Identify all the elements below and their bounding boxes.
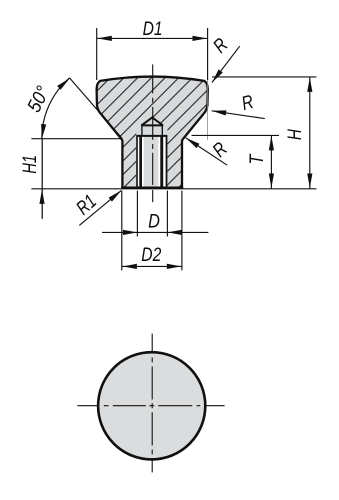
dim H arrow top — [307, 77, 312, 92]
svg-text:50°: 50° — [23, 83, 54, 116]
thread minor dia right line — [160, 136, 163, 186]
drill point cone — [141, 118, 163, 126]
leader R mid line — [212, 111, 265, 119]
dim T arrow bottom — [269, 174, 274, 189]
dim H ext line top — [212, 76, 316, 78]
leader R mid arrow — [211, 108, 226, 115]
svg-text:H1: H1 — [19, 155, 41, 174]
dim T ext line top — [192, 134, 280, 136]
knob section outline — [97, 77, 208, 188]
dim H line — [309, 77, 311, 189]
dim D2 ext line right — [181, 191, 183, 271]
bottom view circle — [98, 352, 205, 459]
thread white gap left outer — [138, 136, 140, 186]
dim D1 arrow left — [97, 36, 112, 41]
thread white gap right outer — [163, 136, 165, 186]
leader R low line — [186, 138, 227, 165]
knob section body fill — [97, 77, 208, 188]
dim T line — [270, 135, 272, 188]
dim D2 line — [122, 265, 182, 267]
svg-text:R: R — [209, 34, 232, 57]
thread major dia right line — [166, 135, 168, 187]
bottom face line — [121, 187, 183, 189]
bottom face ext line — [31, 188, 316, 190]
leader R top arrow — [210, 69, 223, 84]
svg-text:R: R — [239, 91, 256, 115]
svg-text:R1: R1 — [72, 190, 101, 219]
dim D1 ext line right — [207, 28, 209, 80]
thread hole cover: drill cone interior — [142, 117, 163, 126]
svg-text:D: D — [148, 210, 160, 232]
leader R top line — [212, 46, 240, 82]
bottom view centerline horizontal — [77, 405, 224, 407]
thread white gap right inner — [158, 136, 160, 186]
dim D2 ext line left — [121, 191, 123, 271]
leader R1 line — [79, 190, 121, 225]
leader R low arrow — [184, 136, 199, 148]
drill bore right line — [161, 125, 163, 137]
dim D arrow right — [167, 230, 182, 235]
dim D ext line right — [166, 191, 168, 237]
dim D ext line left — [136, 191, 138, 237]
svg-text:H: H — [284, 128, 306, 140]
angle 50 deg slanted line — [70, 78, 123, 139]
drill bore left line — [141, 125, 143, 137]
angle 50 arc arrow top — [57, 76, 71, 89]
dim D1 ext line right lower part — [207, 80, 209, 140]
leader R1 arrow — [109, 188, 123, 201]
knob section hatching — [97, 77, 208, 188]
angle 50 deg arc — [42, 78, 70, 139]
dim D arrow left — [123, 230, 138, 235]
centerline top view — [152, 64, 154, 202]
thread end line — [136, 135, 167, 137]
svg-text:T: T — [246, 153, 268, 165]
thread hole cover: bore interior — [136, 125, 167, 187]
thread white gap left inner — [142, 136, 144, 186]
dim D2 arrow right — [167, 264, 182, 269]
dim H1 line — [41, 139, 43, 219]
svg-text:D1: D1 — [143, 18, 163, 40]
dim D1 ext line left — [96, 28, 98, 80]
dim D2 arrow left — [122, 264, 136, 269]
dim H1 arrow — [39, 189, 44, 204]
thread minor dia left line — [139, 136, 142, 186]
svg-text:R: R — [208, 138, 231, 162]
dim T arrow top — [269, 136, 274, 151]
bottom view centerline vertical — [151, 334, 153, 473]
dim D1 arrow right — [193, 36, 208, 41]
svg-text:D2: D2 — [141, 244, 161, 266]
angle 50 arc arrow bottom — [39, 124, 46, 139]
dim D line — [102, 231, 208, 233]
thread major dia left line — [136, 135, 138, 187]
drill bottom line — [141, 124, 163, 126]
angle 50 deg extension horizontal — [31, 138, 120, 140]
dim D1 line — [97, 37, 208, 39]
dim H arrow bottom — [307, 174, 312, 189]
